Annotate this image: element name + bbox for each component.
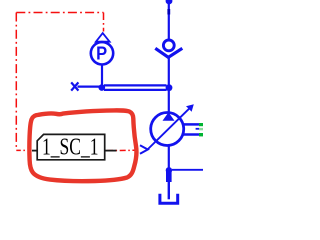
- svg-text:1_SC_1: 1_SC_1: [42, 134, 99, 161]
- svg-text:P: P: [96, 43, 107, 63]
